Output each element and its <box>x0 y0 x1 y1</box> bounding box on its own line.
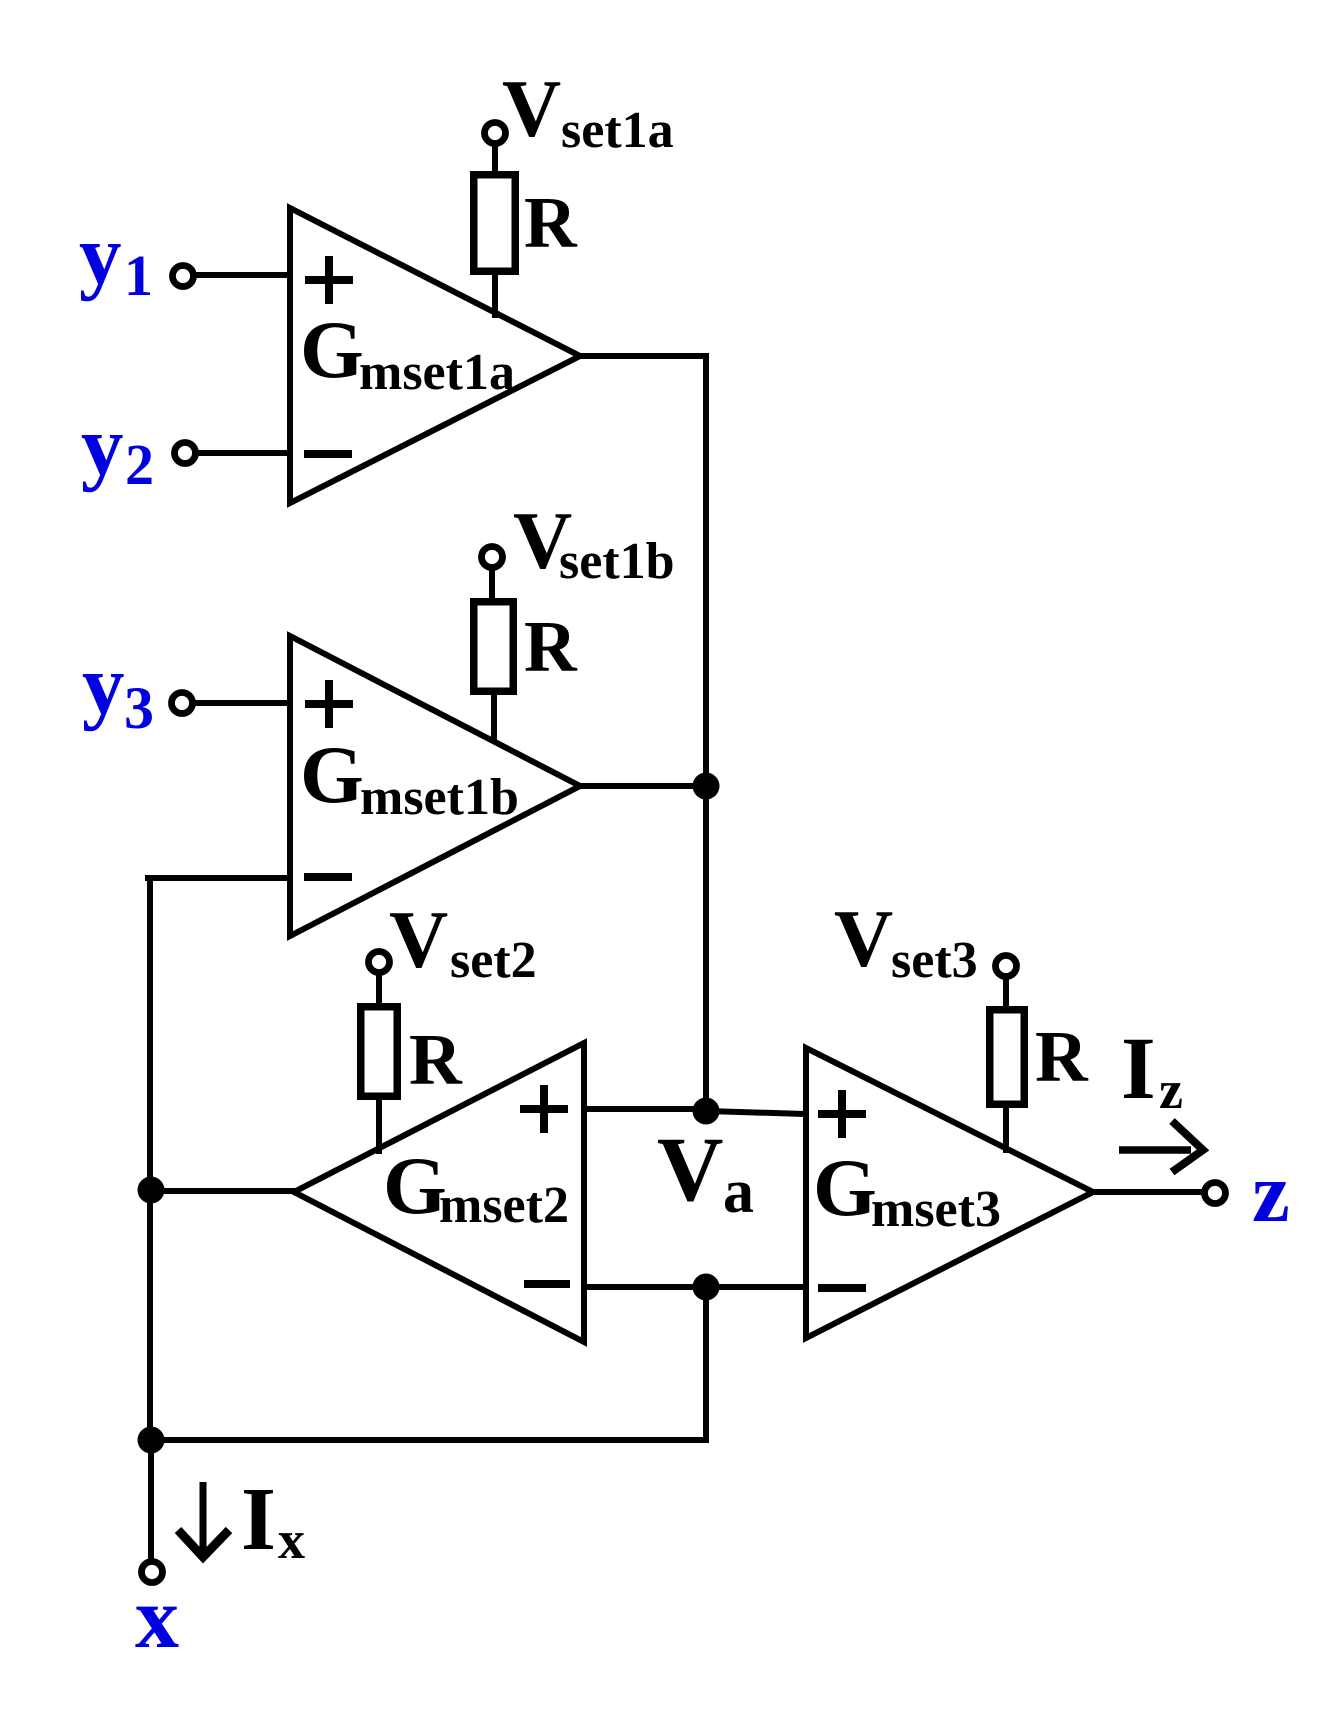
svg-text:z: z <box>1159 1060 1183 1120</box>
svg-text:x: x <box>278 1510 305 1570</box>
svg-text:a: a <box>723 1158 754 1226</box>
svg-text:V: V <box>389 894 448 985</box>
svg-text:V: V <box>834 893 893 984</box>
svg-text:V: V <box>657 1118 723 1220</box>
svg-text:V: V <box>502 63 561 154</box>
svg-text:set2: set2 <box>450 932 537 989</box>
svg-text:x: x <box>135 1570 179 1667</box>
svg-text:G: G <box>300 729 364 820</box>
svg-text:R: R <box>409 1019 463 1100</box>
svg-text:y: y <box>79 208 122 302</box>
svg-text:mset2: mset2 <box>439 1177 569 1234</box>
svg-text:G: G <box>300 304 364 395</box>
svg-text:z: z <box>1252 1146 1290 1240</box>
svg-text:R: R <box>524 606 578 687</box>
svg-text:R: R <box>524 182 578 263</box>
svg-text:1: 1 <box>124 243 153 308</box>
svg-text:set1a: set1a <box>561 102 674 159</box>
svg-text:mset3: mset3 <box>871 1181 1001 1238</box>
svg-text:set1b: set1b <box>559 533 675 590</box>
svg-text:mset1b: mset1b <box>360 769 519 826</box>
svg-text:y: y <box>81 399 124 493</box>
svg-text:3: 3 <box>124 675 154 741</box>
svg-text:G: G <box>813 1142 877 1233</box>
svg-text:y: y <box>82 638 125 732</box>
svg-text:2: 2 <box>125 432 154 497</box>
svg-text:mset1a: mset1a <box>359 344 515 401</box>
svg-text:I: I <box>1121 1020 1156 1118</box>
svg-text:I: I <box>241 1470 276 1569</box>
svg-text:G: G <box>383 1140 447 1231</box>
svg-text:set3: set3 <box>891 932 978 989</box>
svg-text:R: R <box>1035 1016 1089 1097</box>
